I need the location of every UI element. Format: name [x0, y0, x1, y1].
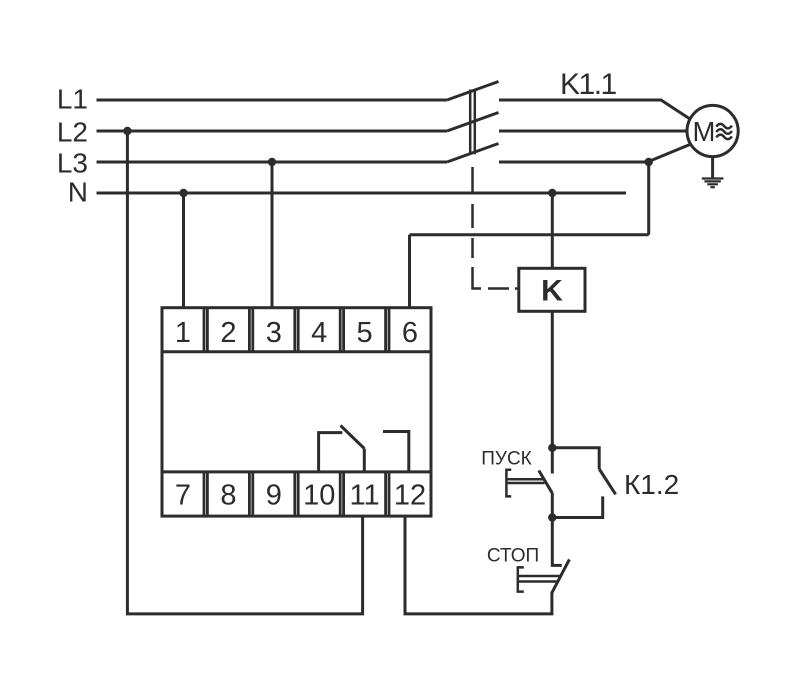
- internal relay contact terminal 11 stub: [363, 449, 366, 472]
- button PUSK cap bracket: [506, 470, 511, 497]
- node L3-motor junction: [645, 158, 653, 166]
- node start top junction: [548, 444, 556, 452]
- wire L1 bus: [97, 99, 448, 102]
- contact K1.1 pole 2 blade: [447, 113, 499, 132]
- dashed linkage to coil: [473, 167, 519, 289]
- svg-text:9: 9: [266, 480, 282, 512]
- wire L3 to terminal 3: [271, 162, 274, 308]
- svg-text:10: 10: [303, 480, 335, 512]
- wire L2 drop to bottom and terminal 11: [127, 131, 362, 614]
- svg-text:11: 11: [350, 480, 380, 512]
- svg-text:3: 3: [266, 317, 282, 349]
- coil K box: [519, 268, 585, 311]
- terminal separators bottom row: [204, 472, 389, 516]
- svg-text:4: 4: [311, 317, 327, 349]
- ground: [702, 157, 724, 188]
- wire L3 junction down to x649: [647, 162, 650, 235]
- svg-text:L2: L2: [57, 117, 88, 148]
- wire L2 bus: [97, 130, 448, 133]
- relay device body: [162, 308, 431, 516]
- svg-text:L3: L3: [57, 148, 88, 179]
- svg-text:1: 1: [175, 317, 191, 349]
- terminal labels 1-6: [175, 317, 418, 349]
- wire L3 to motor node: [499, 161, 649, 164]
- svg-text:6: 6: [402, 317, 418, 349]
- svg-text:ПУСК: ПУСК: [481, 449, 532, 470]
- internal relay contact terminal 12 hook: [383, 432, 409, 472]
- wire horizontal to terminal 6: [410, 233, 649, 236]
- contact K1.2 bottom stub: [552, 496, 602, 517]
- wire motor node slant: [649, 144, 691, 161]
- svg-text:12: 12: [394, 480, 426, 512]
- contact K1.1 pole 1 blade: [447, 82, 499, 101]
- button STOP blade: [552, 559, 570, 593]
- wire N to coil K: [551, 193, 554, 268]
- terminal labels 7-12: [175, 480, 426, 512]
- svg-text:К1.2: К1.2: [624, 469, 679, 500]
- svg-text:5: 5: [357, 317, 373, 349]
- device top row separator: [162, 350, 431, 353]
- button PUSK bottom wire: [551, 493, 554, 518]
- wire STOP bottom to terminal 12: [405, 516, 552, 614]
- contact K1.2 blade: [599, 469, 615, 494]
- svg-text:7: 7: [175, 480, 191, 512]
- contact K1.2 top wire: [552, 448, 599, 469]
- terminal separators top row: [204, 308, 389, 352]
- contact K1.1 linkage bar: [470, 90, 475, 155]
- wire N bus: [97, 192, 627, 195]
- button PUSK blade: [539, 471, 553, 494]
- internal relay contact terminal 10 stub: [319, 433, 343, 472]
- svg-text:8: 8: [220, 480, 236, 512]
- svg-text:K: K: [541, 275, 563, 308]
- node L2 junction: [123, 127, 131, 135]
- node N junction terminal 1: [179, 189, 187, 197]
- button STOP top wire: [552, 518, 562, 566]
- button STOP cap bracket: [518, 567, 524, 591]
- motor M1: [687, 105, 738, 156]
- svg-text:N: N: [68, 177, 88, 208]
- svg-text:СТОП: СТОП: [487, 545, 539, 566]
- wire L1 to motor: [499, 100, 690, 119]
- node N junction to coil: [548, 189, 556, 197]
- svg-text:L1: L1: [57, 84, 88, 115]
- svg-text:M: M: [693, 116, 716, 147]
- svg-text:K1.1: K1.1: [560, 68, 617, 101]
- button PUSK top wire: [551, 448, 554, 474]
- wire L3 bus: [97, 161, 448, 164]
- wire L2 to motor: [499, 130, 687, 133]
- node start bottom junction: [548, 513, 556, 521]
- button PUSK shaft: [506, 479, 544, 483]
- node L3 junction terminal 3: [268, 158, 276, 166]
- svg-text:2: 2: [220, 317, 236, 349]
- wire N to terminal 1: [182, 193, 185, 308]
- wire coil K down: [551, 311, 554, 448]
- wire down to terminal 6: [408, 235, 411, 308]
- internal relay contact blade: [341, 426, 365, 449]
- device bottom row separator: [162, 470, 431, 473]
- contact K1.1 pole 3 blade: [447, 144, 499, 163]
- button STOP shaft: [518, 576, 561, 582]
